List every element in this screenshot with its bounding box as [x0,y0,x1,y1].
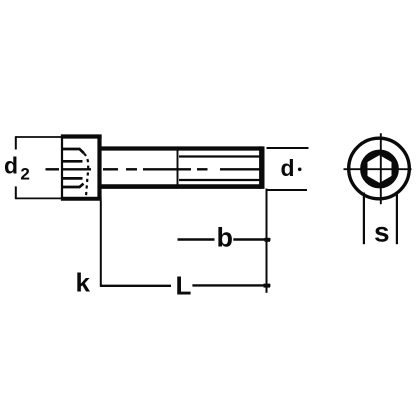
hidden socket cone dashed curve [84,154,88,197]
end view vertical centerline [380,133,382,204]
svg-text:d: d [281,155,295,181]
b line end blob [265,238,271,242]
shaft bottom edge [102,184,262,189]
screw head bottom edge [61,197,102,201]
end view hex socket [366,154,393,185]
dimension d extension line bottom [267,189,308,191]
thread minor diameter top line [179,155,263,157]
svg-text:L: L [176,271,192,301]
socket flat line upper [63,160,83,163]
socket bottom line with chamfer [63,184,84,187]
socket top line with chamfer [63,149,84,153]
svg-text:2: 2 [20,164,29,183]
dimension d2 vertical line upper [15,136,17,149]
svg-text:d: d [4,152,18,178]
extension line from shaft end [266,189,268,293]
L line right end blob [264,284,271,288]
dimension line L left segment [100,285,171,287]
end view outer circle (head) [349,138,410,199]
end view socket chamfer ring [363,152,396,185]
dimension line b right segment [233,238,270,240]
screw head left edge [61,135,63,200]
dimension s extension line left [363,193,365,245]
socket flat line lower [63,177,83,180]
dimension d extension line top [267,147,309,149]
shaft top edge [102,146,262,150]
shaft end bar [259,146,264,189]
dimension line b left segment [178,238,215,240]
svg-text:s: s [374,216,390,247]
svg-text:k: k [76,268,91,298]
thread start vertical line [177,151,179,185]
end view horizontal centerline [344,168,412,170]
screw head right edge [97,135,101,201]
screw head top edge [61,134,102,138]
svg-text:b: b [217,223,234,253]
dimension d2 vertical line lower [15,186,17,199]
dimension d2 extension line bottom [16,197,61,199]
dimension s extension line right [396,193,398,245]
centerline dot right of d label [298,168,302,172]
centerline of screw [46,168,264,170]
extension line from head face (k) [100,201,102,287]
thread minor diameter bottom line [179,179,263,181]
dimension d2 extension line top [16,136,61,138]
dimension line L right segment [192,284,270,286]
